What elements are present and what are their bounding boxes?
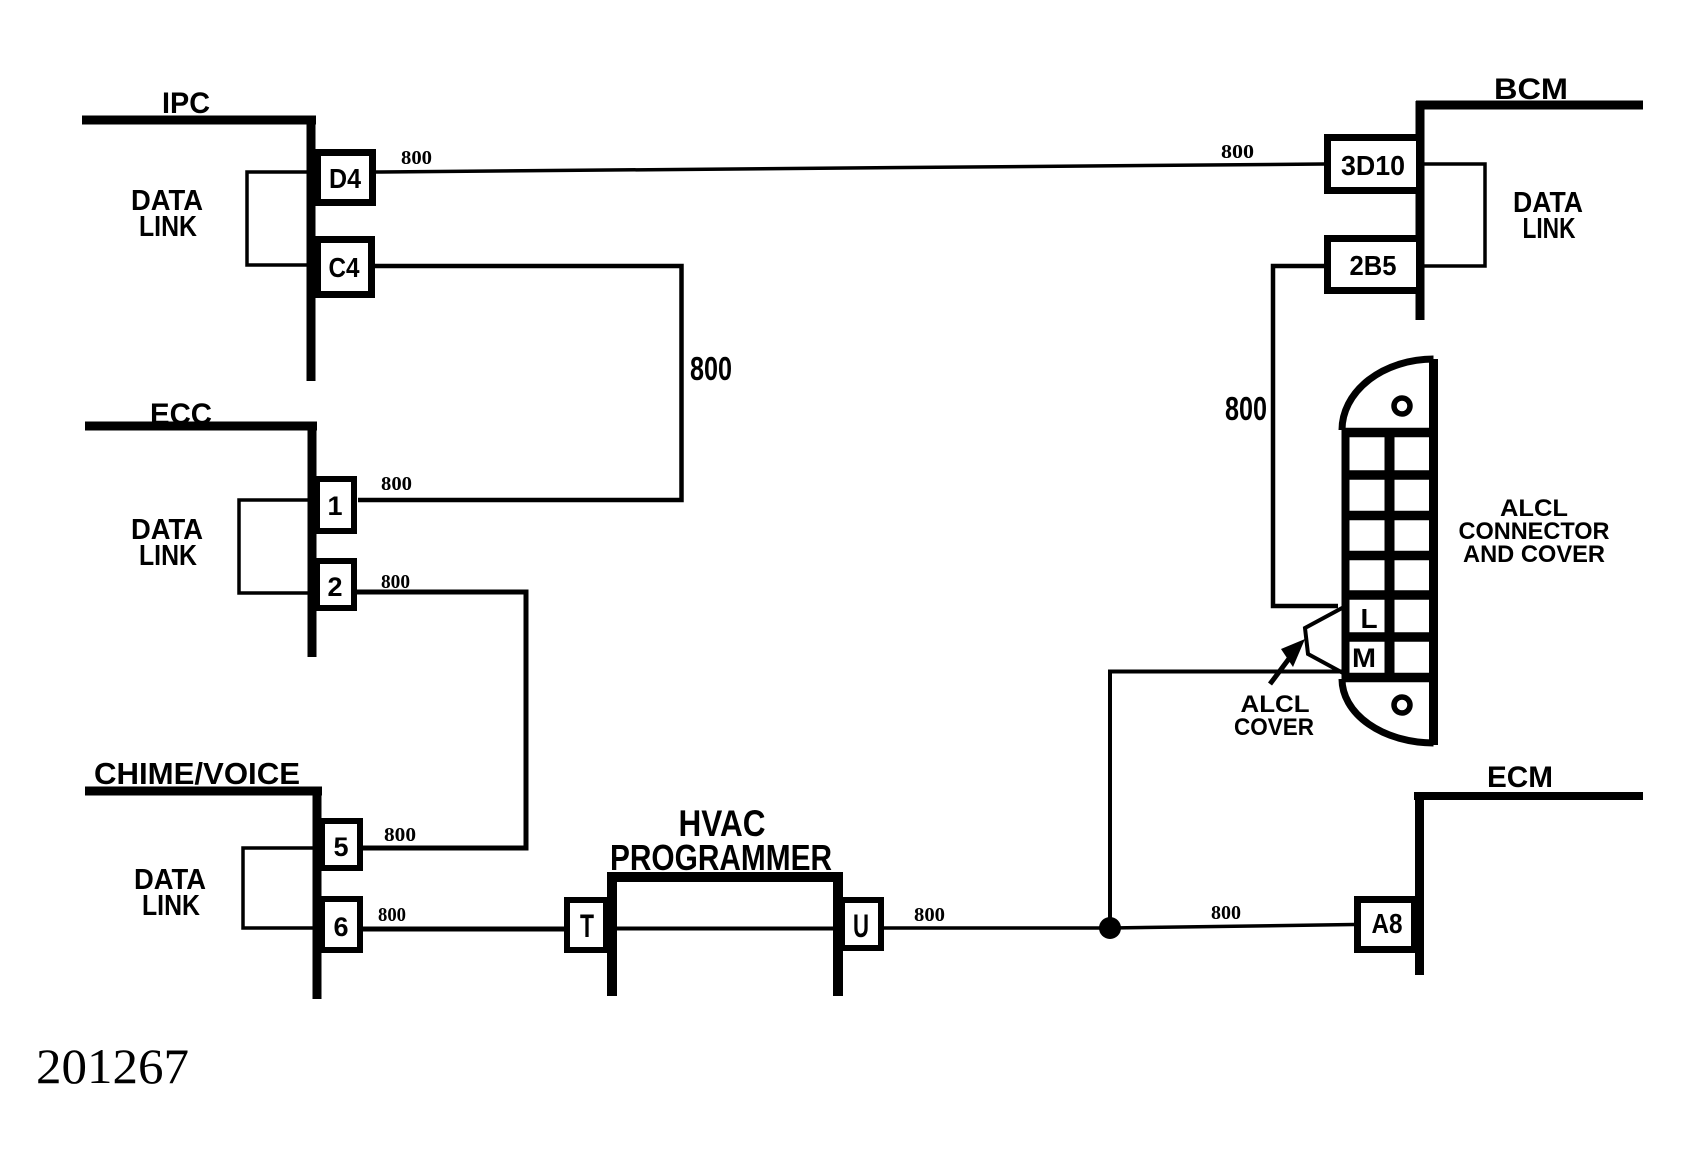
wire CHIME pin 6 to HVAC pin T (circuit 800)	[363, 927, 567, 932]
pin 5 connector box	[322, 821, 360, 868]
svg-text:800: 800	[1225, 390, 1267, 427]
pin 2B5 connector box	[1328, 239, 1420, 291]
wire junction to ALCL pin M	[1110, 672, 1343, 929]
svg-text:201267: 201267	[36, 1038, 189, 1094]
wire D4 to 3D10 (circuit 800)	[376, 164, 1324, 172]
ALCL cover flap outline	[1305, 608, 1343, 674]
wire C4 to ECC pin 1 (circuit 800)	[358, 266, 682, 500]
ECM bus vertical wire	[1415, 792, 1424, 975]
BCM data link bracket wire	[1423, 164, 1485, 266]
svg-text:IPC: IPC	[162, 87, 210, 120]
wire ECC pin 2 to CHIME pin 5 (circuit 800)	[355, 592, 526, 848]
wire HVAC pin T to pin U internal	[605, 927, 843, 931]
svg-text:LINK: LINK	[139, 211, 197, 243]
ALCL connector bottom arc	[1342, 679, 1434, 743]
svg-text:PROGRAMMER: PROGRAMMER	[610, 837, 832, 878]
CHIME bus vertical wire	[313, 787, 322, 999]
BCM bus vertical wire	[1416, 101, 1425, 320]
CHIME bus line	[85, 787, 322, 796]
wire 2B5 to ALCL pin L (circuit 800)	[1273, 266, 1338, 606]
svg-text:M: M	[1352, 643, 1376, 673]
svg-text:T: T	[580, 908, 594, 944]
svg-text:U: U	[853, 908, 869, 944]
IPC data link bracket wire	[247, 172, 314, 265]
ECM bus line	[1414, 792, 1643, 800]
svg-text:800: 800	[1211, 902, 1241, 924]
svg-text:LINK: LINK	[1523, 213, 1576, 245]
wire HVAC pin U to ECM pin A8 (circuit 800)	[884, 925, 1354, 929]
svg-text:3D10: 3D10	[1341, 150, 1405, 181]
HVAC PROGRAMMER box outline	[612, 877, 838, 996]
ALCL connector right edge	[1429, 359, 1438, 745]
ALCL connector top arc	[1342, 359, 1434, 430]
svg-text:AND COVER: AND COVER	[1463, 541, 1605, 568]
svg-text:LINK: LINK	[139, 540, 197, 572]
pin 2 connector box	[317, 561, 354, 608]
svg-text:A8: A8	[1372, 908, 1403, 939]
svg-text:CHIME/VOICE: CHIME/VOICE	[94, 756, 300, 791]
CHIME data link bracket wire	[243, 848, 319, 928]
pin 1 connector box	[317, 479, 354, 531]
pin A8 connector box	[1358, 900, 1415, 950]
svg-text:800: 800	[401, 147, 432, 169]
IPC bus vertical wire	[307, 116, 316, 381]
svg-text:800: 800	[690, 350, 732, 387]
BCM bus line	[1416, 101, 1643, 110]
pin C4 connector box	[318, 240, 372, 295]
ALCL top mounting hole	[1394, 398, 1410, 414]
pin D4 connector box	[318, 153, 373, 203]
pin T connector box	[567, 900, 606, 950]
svg-text:ECM: ECM	[1487, 761, 1553, 794]
IPC bus line	[82, 116, 316, 125]
svg-text:800: 800	[381, 473, 412, 495]
svg-text:LINK: LINK	[142, 890, 200, 922]
svg-text:800: 800	[914, 904, 945, 926]
svg-text:5: 5	[333, 832, 348, 862]
svg-text:800: 800	[381, 571, 410, 593]
ECC bus vertical wire	[308, 422, 317, 657]
ECC data link bracket wire	[239, 500, 314, 593]
pin 6 connector box	[322, 899, 360, 950]
pin 3D10 connector box	[1328, 138, 1420, 191]
pin U connector box	[842, 900, 881, 948]
svg-text:800: 800	[384, 824, 416, 846]
svg-text:L: L	[1360, 603, 1377, 634]
svg-text:2: 2	[327, 572, 342, 602]
ALCL COVER arrow	[1270, 656, 1291, 684]
svg-text:1: 1	[327, 491, 342, 521]
svg-text:C4: C4	[329, 252, 360, 283]
ALCL bottom mounting hole	[1394, 697, 1410, 713]
ECC bus line	[85, 422, 317, 431]
svg-text:COVER: COVER	[1234, 714, 1314, 741]
svg-text:2B5: 2B5	[1350, 250, 1397, 281]
svg-text:800: 800	[378, 904, 406, 926]
svg-text:6: 6	[333, 912, 348, 942]
svg-text:D4: D4	[329, 163, 361, 194]
junction node splice	[1099, 917, 1121, 939]
svg-text:800: 800	[1221, 141, 1254, 163]
ALCL terminal grid	[1342, 428, 1433, 681]
